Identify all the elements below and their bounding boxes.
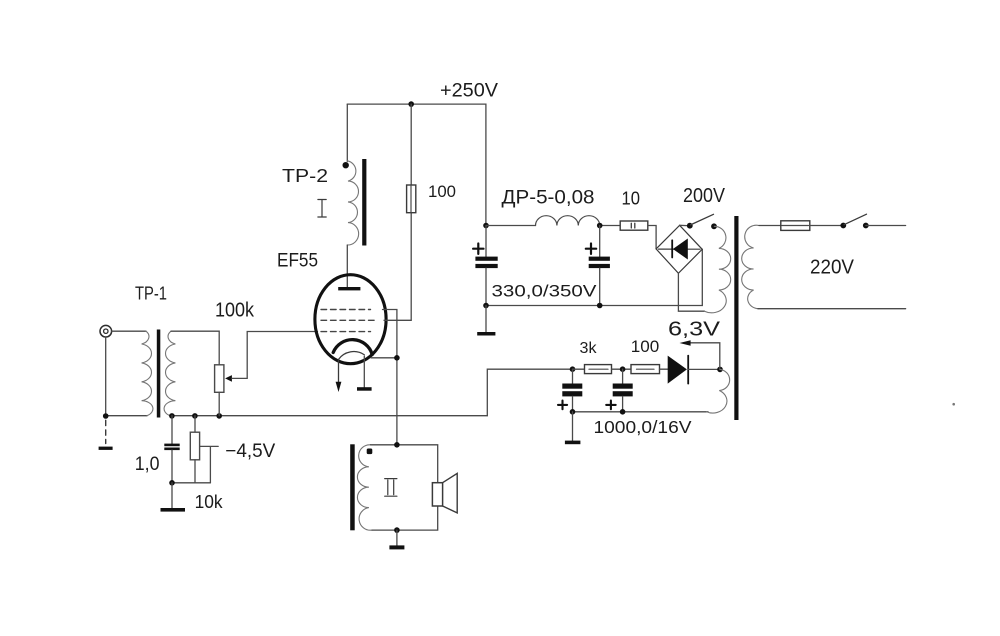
wire diode to winding — [688, 368, 720, 370]
6,3V winding — [707, 369, 730, 413]
capacitor C2 bottom lead — [599, 268, 601, 305]
wire bridge top to switch — [680, 224, 687, 226]
switch S2 blade — [844, 214, 867, 225]
svg-text:6,3V: 6,3V — [668, 319, 721, 341]
fuse 10 inner marks — [631, 223, 635, 228]
6,3V arrow head — [680, 340, 691, 345]
capacitor C2 plates — [589, 257, 610, 269]
wire fuse to bridge — [648, 226, 656, 249]
TP-1 primary winding — [142, 331, 153, 416]
grid g3 lead — [383, 310, 397, 445]
capacitor C4 lower lead — [622, 396, 624, 411]
capacitor C1 plus sign — [473, 244, 483, 254]
node dot secondary bottom — [394, 527, 400, 533]
TP-2 primary winding — [347, 161, 358, 245]
wire connector to TP-1 primary top — [112, 330, 146, 332]
switch S1 left dot — [687, 223, 693, 229]
cathode lead to node — [371, 357, 397, 359]
switch S1 right dot — [711, 223, 717, 229]
heater lead with arrow — [338, 360, 340, 382]
wire choke to fuse — [600, 225, 620, 227]
winding II marker — [385, 479, 397, 497]
mains top wire — [759, 225, 781, 227]
svg-text:+250V: +250V — [440, 81, 498, 102]
ground G4 — [389, 545, 404, 549]
capacitor C3 plus sign — [558, 401, 567, 410]
svg-text:1,0: 1,0 — [135, 454, 160, 475]
ground G2 — [161, 508, 186, 512]
tube EF55 envelope — [315, 275, 386, 364]
node dot choke output — [597, 223, 603, 229]
node dot cathode — [394, 355, 400, 361]
grid g2 dashes — [321, 319, 378, 321]
mains fuse body — [781, 221, 810, 231]
wire C3 to 3k — [573, 368, 585, 370]
resistor 3k body — [585, 365, 612, 374]
svg-text:220V: 220V — [810, 257, 855, 279]
transformer TP-1 core — [157, 330, 161, 418]
bridge inner lead — [659, 248, 701, 250]
capacitor C3 lower lead — [572, 396, 574, 411]
wire pot bottom — [218, 392, 220, 415]
resistor 100 body — [407, 185, 416, 213]
wire fuse to switch — [810, 225, 844, 227]
svg-text:100: 100 — [428, 182, 456, 201]
bias tap -4,5V line — [200, 446, 219, 482]
capacitor C1 bottom lead — [485, 268, 487, 305]
grid g3 dashes — [321, 309, 371, 311]
node dot on +250V rail — [408, 101, 414, 107]
wire to choke — [486, 225, 536, 227]
svg-text:EF55: EF55 — [277, 251, 318, 272]
SECTIONS INSERTED BELOW — [99, 283, 488, 513]
capacitor C1 top lead — [485, 226, 487, 257]
diode VD2 triangle — [668, 356, 687, 384]
wire secondary top to speaker — [371, 445, 438, 483]
node dot rail C — [216, 413, 222, 419]
svg-text:330,0/350V: 330,0/350V — [492, 281, 598, 300]
choke L1 winding — [536, 216, 600, 226]
resistor 3k inner lead — [589, 368, 608, 370]
wire wiper to grid — [232, 332, 318, 379]
wire TP-2 to anode — [346, 245, 348, 287]
ground G6 — [565, 441, 581, 445]
node dot connector/primary — [103, 413, 109, 419]
power transformer core — [734, 216, 738, 420]
ground G1 — [99, 447, 113, 450]
speaker driver box — [432, 483, 442, 506]
TP-1 secondary winding — [164, 331, 175, 416]
wire 100 to diode — [660, 368, 668, 370]
svg-text:TP-2: TP-2 — [282, 165, 328, 186]
mains lead right bottom — [758, 308, 906, 310]
ground stem G2 — [171, 483, 173, 508]
switch S2 left dot — [840, 223, 846, 229]
node dot choke input — [483, 223, 489, 229]
resistor 100 inner lead — [410, 186, 412, 212]
capacitor C4 upper lead — [622, 369, 624, 383]
capacitor 1,0 top lead — [171, 416, 173, 444]
transformer TP-2 core — [362, 159, 366, 246]
node dot secondary top — [394, 442, 400, 448]
svg-text:−4,5V: −4,5V — [225, 441, 275, 462]
heater arrow head — [336, 382, 342, 392]
rail secondary bottom / bias node — [170, 415, 487, 417]
node dot bias — [169, 480, 175, 486]
resistor 10k bottom lead — [194, 460, 196, 483]
svg-text:10k: 10k — [195, 491, 224, 512]
node dot C4 bottom — [620, 409, 626, 415]
heater feed riser — [487, 369, 572, 416]
ground G3 — [357, 387, 372, 391]
bridge diode bar — [671, 240, 673, 257]
node dot C1 bottom — [483, 303, 489, 309]
mains lead right top — [866, 225, 906, 227]
ground stem G5 — [485, 306, 487, 333]
bridge diode triangle — [673, 239, 688, 260]
speaker transformer secondary winding — [357, 445, 372, 530]
node dot C3 bottom — [570, 409, 576, 415]
node dot C4 top — [620, 366, 626, 372]
grid g2 lead — [384, 213, 411, 321]
heater arc — [338, 352, 364, 360]
diode VD2 bar — [687, 356, 689, 384]
wire rail to TP-2 primary — [346, 104, 348, 161]
switch S2 right dot — [863, 223, 869, 229]
svg-text:TP-1: TP-1 — [135, 283, 167, 304]
winding I marker — [318, 200, 326, 218]
capacitor C1 plates — [475, 257, 497, 269]
potentiometer wiper arrow — [225, 375, 232, 382]
cathode arc — [333, 340, 372, 355]
+250V rail wire — [347, 104, 486, 225]
node dot rail A — [169, 413, 175, 419]
potentiometer 100k body — [215, 365, 224, 393]
speaker horn — [443, 473, 458, 513]
capacitor C4 plus sign — [606, 401, 616, 410]
wire TP-1 primary bottom — [106, 415, 147, 417]
grid g1 dashes — [321, 331, 371, 333]
node dot rail B — [192, 413, 198, 419]
capacitor C3 plates — [562, 384, 582, 397]
fuse 10 body — [620, 221, 648, 230]
svg-text:10: 10 — [622, 189, 641, 209]
bridge rectifier VD1 diamond — [656, 225, 702, 273]
cathode ground stem — [363, 356, 365, 387]
capacitor C3 upper lead — [572, 369, 574, 383]
node dot C2 bottom — [597, 303, 603, 309]
node dot C3 top — [570, 366, 576, 372]
heater minus rail — [573, 411, 709, 413]
ground stem G4 — [396, 530, 398, 545]
capacitor C2 top lead — [599, 226, 601, 257]
6,3V tap arrow — [689, 343, 720, 370]
capacitor C2 plus sign — [586, 244, 596, 254]
primary 220V winding — [742, 225, 759, 309]
input connector X1 — [100, 325, 112, 337]
resistor 100 lead upper — [410, 104, 412, 185]
capacitor 1,0 plates — [164, 444, 179, 451]
TP-2 polarity dot — [343, 162, 349, 168]
svg-text:3k: 3k — [580, 340, 598, 357]
svg-text:100k: 100k — [215, 300, 255, 322]
ground G5 — [477, 332, 495, 336]
HV minus rail — [486, 249, 702, 305]
svg-text:1000,0/16V: 1000,0/16V — [594, 417, 692, 437]
node dot diode/winding — [717, 367, 723, 373]
wire 3k to C4 — [612, 368, 632, 370]
stray mark — [952, 403, 955, 406]
wire connector down to primary bottom — [105, 337, 107, 416]
bias node line — [172, 482, 210, 484]
wire secondary bottom to speaker — [372, 506, 438, 530]
HV secondary winding — [705, 226, 731, 313]
capacitor 1,0 bottom lead — [171, 450, 173, 483]
dashed chassis lead — [105, 420, 107, 443]
mains fuse inner lead — [782, 225, 809, 227]
resistor 100 body — [631, 365, 660, 374]
winding polarity square — [367, 449, 373, 455]
svg-text:200V: 200V — [683, 185, 726, 207]
bridge bottom link — [678, 273, 704, 311]
svg-text:ДР-5-0,08: ДР-5-0,08 — [502, 186, 595, 208]
wire secondary top to pot — [171, 331, 219, 365]
capacitor C4 plates — [613, 384, 633, 397]
ground stem G6 — [572, 412, 574, 441]
anode plate — [338, 287, 360, 290]
speaker transformer core — [350, 444, 355, 530]
resistor 10k body — [190, 432, 199, 460]
resistor 10k top lead — [194, 416, 196, 433]
svg-text:100: 100 — [631, 338, 660, 356]
resistor 100 inner lead — [637, 368, 655, 370]
switch S1 blade — [691, 214, 714, 225]
